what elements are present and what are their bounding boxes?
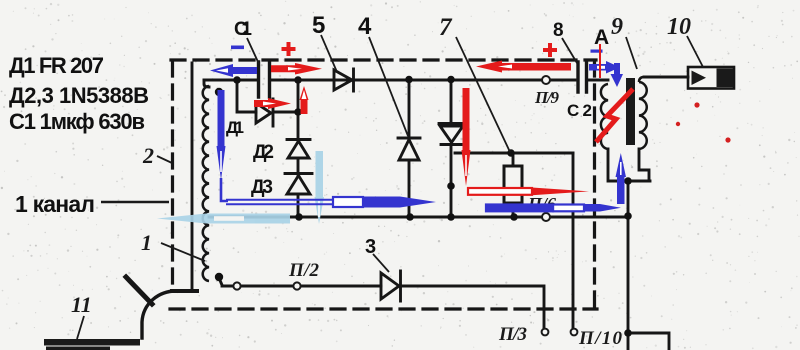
svg-text:2: 2 <box>142 143 154 168</box>
svg-text:А: А <box>594 26 609 49</box>
svg-text:7: 7 <box>439 14 453 41</box>
svg-text:Д3: Д3 <box>251 177 273 198</box>
svg-text:С 2: С 2 <box>567 101 592 120</box>
svg-text:1: 1 <box>141 230 152 255</box>
svg-text:11: 11 <box>71 292 92 317</box>
svg-text:1 канал: 1 канал <box>15 191 95 217</box>
svg-text:8: 8 <box>553 20 564 41</box>
svg-text:П/9: П/9 <box>534 88 560 107</box>
svg-text:С1 1мкф 630в: С1 1мкф 630в <box>9 109 145 134</box>
svg-text:Д1 FR 207: Д1 FR 207 <box>9 53 104 78</box>
svg-text:П/10: П/10 <box>578 328 623 349</box>
svg-text:10: 10 <box>667 14 691 40</box>
svg-text:4: 4 <box>358 13 372 40</box>
svg-text:С1: С1 <box>234 19 252 40</box>
svg-text:3: 3 <box>365 236 376 258</box>
svg-text:9: 9 <box>611 14 623 40</box>
svg-text:П/3: П/3 <box>498 324 527 345</box>
svg-text:Д2,3 1N5388В: Д2,3 1N5388В <box>9 83 149 108</box>
svg-text:5: 5 <box>312 12 325 39</box>
svg-text:Д2: Д2 <box>253 142 274 163</box>
svg-text:П/2: П/2 <box>288 260 320 281</box>
svg-text:Д1: Д1 <box>226 118 244 137</box>
